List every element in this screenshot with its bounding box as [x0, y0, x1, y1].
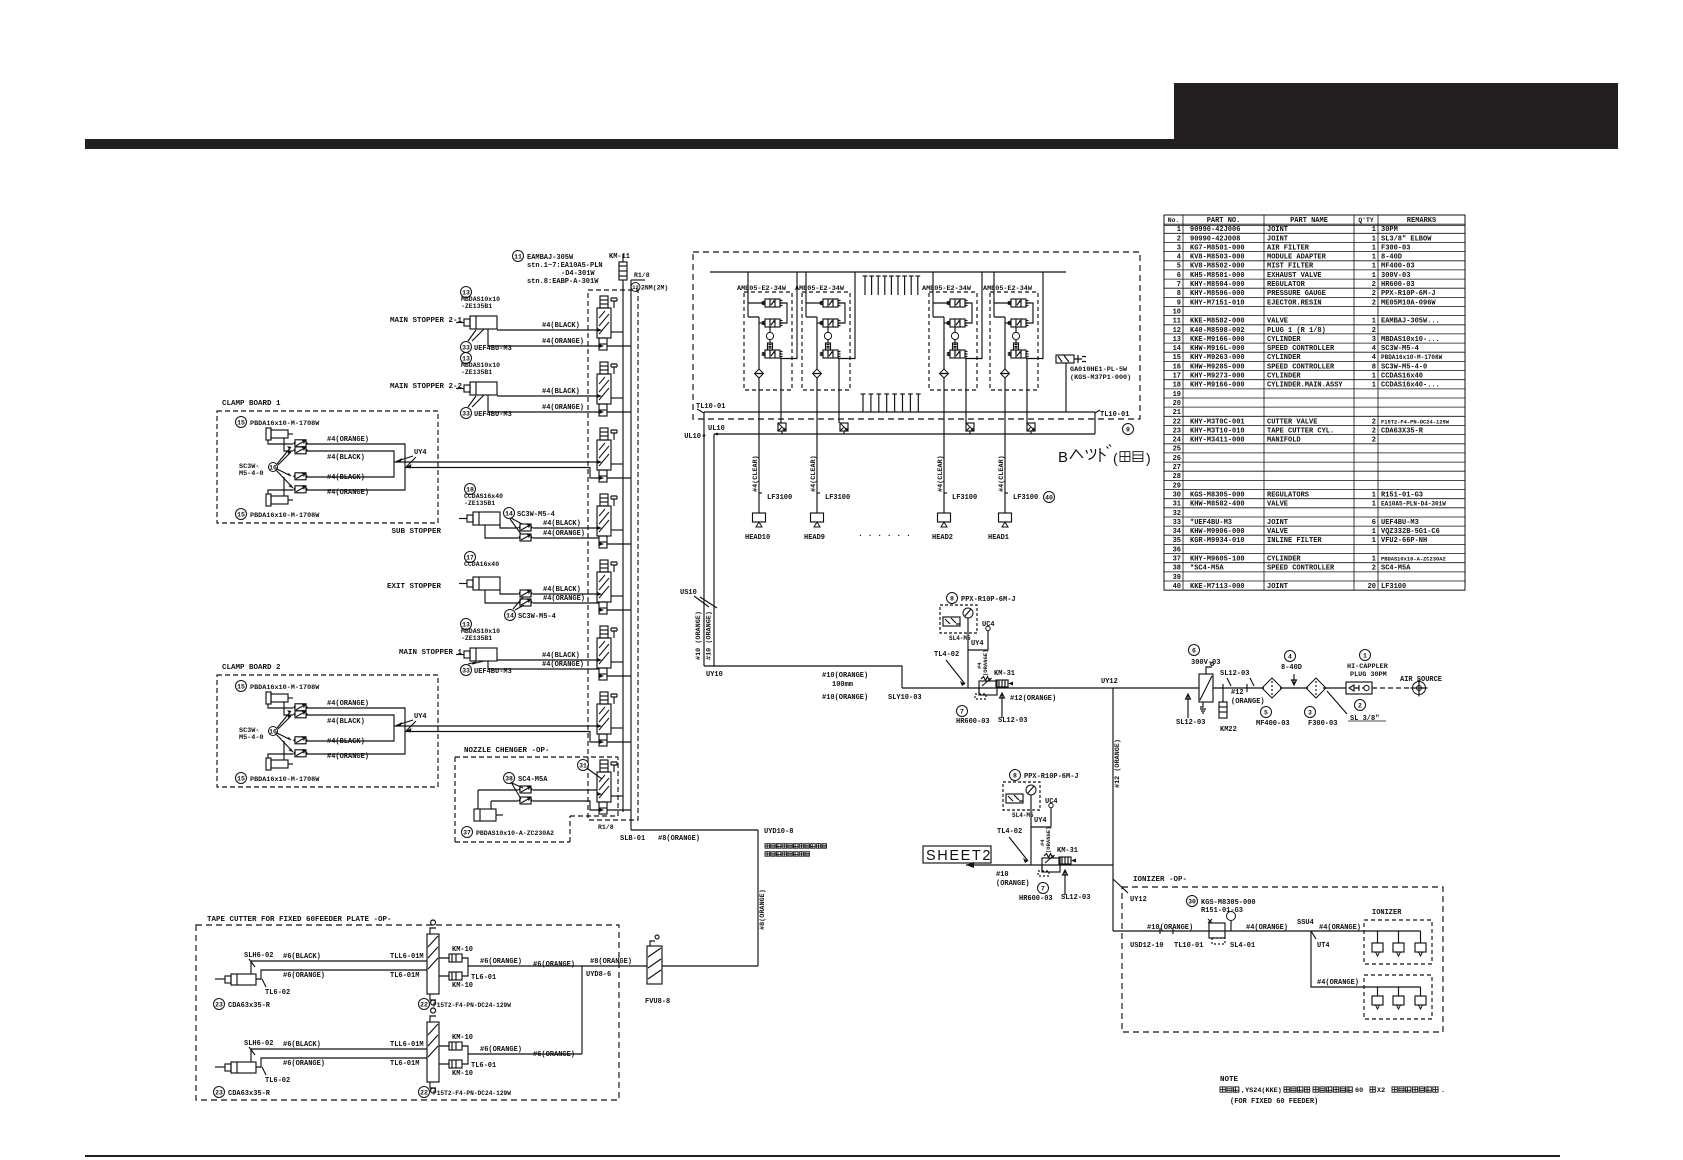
svg-text:32: 32 [1173, 510, 1181, 518]
svg-text:#6(ORANGE): #6(ORANGE) [480, 1046, 522, 1054]
svg-text:KHY-M9273-000: KHY-M9273-000 [1190, 373, 1245, 381]
svg-text:1: 1 [1372, 537, 1376, 545]
svg-text:#4(CLEAR): #4(CLEAR) [937, 455, 945, 492]
svg-text:HR600-03: HR600-03 [956, 718, 990, 726]
head nozzle HEAD10 [753, 513, 766, 527]
svg-text:39: 39 [1173, 574, 1181, 582]
parts table [1164, 215, 1465, 591]
label SHEET2 [923, 846, 991, 863]
svg-text:2: 2 [1372, 437, 1376, 445]
svg-text:KM-10: KM-10 [452, 1070, 473, 1078]
wire #4(BLACK) MAIN STOPPER 2-2 [497, 395, 597, 397]
joint SL 3/8 [1355, 700, 1366, 711]
wire #4(ORANGE) SUB STOPPER [485, 525, 518, 538]
svg-text:TL6-01M: TL6-01M [390, 972, 419, 980]
svg-text:1: 1 [1372, 254, 1376, 262]
svg-text:#4(ORANGE): #4(ORANGE) [327, 489, 369, 497]
svg-text:KHY-M3T10-010: KHY-M3T10-010 [1190, 427, 1245, 435]
svg-text:1: 1 [1372, 556, 1376, 564]
svg-text:#12: #12 [1231, 689, 1244, 697]
valve label block 11 [513, 251, 524, 262]
svg-text:REGULATORS: REGULATORS [1267, 491, 1309, 499]
svg-text:#4(CLEAR): #4(CLEAR) [752, 455, 760, 492]
wire main line right [1213, 687, 1346, 689]
wire tape cutter output [462, 958, 582, 976]
svg-text:PRESSURE GAUGE: PRESSURE GAUGE [1267, 290, 1326, 298]
wire UC4 stub TL4-02 lower [1031, 808, 1051, 827]
wire #4(ORANGE) CLAMP BOARD 2 bottom [268, 754, 293, 758]
svg-text:EXHAUST VALVE: EXHAUST VALVE [1267, 272, 1322, 280]
svg-text:KH5-M8501-000: KH5-M8501-000 [1190, 272, 1245, 280]
svg-text:UC4: UC4 [1045, 798, 1058, 806]
svg-text:33: 33 [462, 344, 470, 351]
svg-text:16: 16 [1173, 363, 1181, 371]
node R1/8 top [631, 279, 645, 281]
svg-text:2: 2 [1177, 235, 1181, 243]
wire #4(BLACK) EXIT STOPPER [500, 590, 518, 594]
svg-text:FVU8-8: FVU8-8 [645, 998, 670, 1006]
svg-text:IONIZER -OP-: IONIZER -OP- [1133, 876, 1187, 884]
svg-text:#12 (ORANGE): #12 (ORANGE) [1114, 739, 1122, 788]
wire #4(ORANGE) MAIN STOPPER 2-1 [488, 329, 599, 346]
svg-text:JOINT: JOINT [1267, 519, 1288, 527]
svg-text:EAMBAJ-305W...: EAMBAJ-305W... [1381, 318, 1440, 326]
svg-text:90990-42J006: 90990-42J006 [1190, 226, 1240, 234]
cylinder MAIN STOPPER 2-1 [461, 287, 472, 298]
module adapter 8-40D [1285, 651, 1296, 662]
svg-text:TL6-01M: TL6-01M [390, 1060, 419, 1068]
svg-text:F300-03: F300-03 [1381, 244, 1410, 252]
wire #4(BLACK) SUB STOPPER [500, 525, 518, 528]
svg-text:stn.8:EABP-A-301W: stn.8:EABP-A-301W [527, 278, 599, 286]
svg-text:TLL6-01M: TLL6-01M [390, 953, 424, 961]
svg-text:USD12-10: USD12-10 [1130, 942, 1164, 950]
wire nozzle changer bottom [491, 801, 599, 810]
svg-text:KHW-M9906-000: KHW-M9906-000 [1190, 528, 1245, 536]
svg-text:1: 1 [1372, 491, 1376, 499]
svg-text:34: 34 [1173, 528, 1181, 536]
svg-text:KHW-M8582-400: KHW-M8582-400 [1190, 501, 1245, 509]
exhaust valve 300V-03 [1189, 645, 1200, 656]
svg-text:UEF4BU-M3: UEF4BU-M3 [474, 668, 512, 676]
wire group 4 feed [993, 272, 995, 295]
valve manifold station 4 [597, 494, 631, 548]
svg-text:30PM: 30PM [1381, 226, 1398, 234]
svg-text:KM-11: KM-11 [609, 253, 630, 261]
svg-text:KGS-M8305-000: KGS-M8305-000 [1190, 491, 1245, 499]
svg-text:TL10-01: TL10-01 [696, 403, 725, 411]
svg-text:38: 38 [505, 775, 513, 782]
svg-text:HEAD10: HEAD10 [745, 534, 770, 542]
svg-text:1: 1 [1372, 235, 1376, 243]
wire #4(BLACK) MAIN STOPPER 2-1 [497, 329, 597, 331]
wire UC4 stub TL4-02 upper [968, 631, 988, 650]
svg-text:PPX-R10P-6M-J: PPX-R10P-6M-J [1024, 773, 1079, 781]
speed controller label SUB STOPPER [504, 508, 515, 519]
wire UT4 branch [1311, 931, 1364, 987]
svg-text:LF3100: LF3100 [767, 494, 792, 502]
svg-text:LF3100: LF3100 [825, 494, 850, 502]
wire tape cutter output [462, 1046, 582, 1064]
svg-text:EA10A5-PLN-D4-301W: EA10A5-PLN-D4-301W [1381, 501, 1446, 508]
svg-text:100mm: 100mm [832, 681, 853, 689]
svg-text:29: 29 [1173, 482, 1181, 490]
wire #12(ORANGE) vertical [1112, 688, 1114, 931]
svg-text:MBDAS10x10: MBDAS10x10 [461, 362, 500, 369]
svg-text:1: 1 [1372, 382, 1376, 390]
svg-text:KKE-M7113-000: KKE-M7113-000 [1190, 583, 1245, 591]
wire #4(BLACK) CLAMP BOARD 1 upper [284, 438, 293, 451]
svg-text:KHY-M8504-000: KHY-M8504-000 [1190, 281, 1245, 289]
svg-text:PLUG 30PM: PLUG 30PM [1350, 671, 1387, 679]
svg-text:NOTE: NOTE [1220, 1076, 1239, 1084]
svg-text:No.: No. [1168, 217, 1180, 224]
wire tape cutter merge [582, 966, 647, 1054]
svg-text:11: 11 [1173, 318, 1181, 326]
svg-text:SLH6-02: SLH6-02 [244, 1040, 273, 1048]
svg-text:CCDAS16x40: CCDAS16x40 [1381, 373, 1423, 381]
svg-text:1: 1 [1372, 244, 1376, 252]
svg-text:MBDAS10x10: MBDAS10x10 [461, 628, 500, 635]
svg-text:EXIT STOPPER: EXIT STOPPER [387, 583, 442, 591]
svg-text:#4(CLEAR): #4(CLEAR) [998, 455, 1006, 492]
feed wire top [710, 271, 1066, 273]
svg-text:KKE-M8582-000: KKE-M8582-000 [1190, 318, 1245, 326]
svg-text:#4(CLEAR): #4(CLEAR) [810, 455, 818, 492]
svg-text:37: 37 [463, 829, 471, 836]
svg-text:SHEET2: SHEET2 [926, 848, 992, 864]
speed controller pair SUB STOPPER [518, 524, 533, 531]
svg-text:UY12: UY12 [1130, 896, 1147, 904]
svg-text:#4(ORANGE): #4(ORANGE) [542, 404, 584, 412]
svg-text:CLAMP BOARD 1: CLAMP BOARD 1 [222, 400, 281, 408]
svg-text:TAPE CUTTER FOR FIXED 60FEEDER: TAPE CUTTER FOR FIXED 60FEEDER PLATE -OP… [207, 916, 392, 924]
svg-text:MF400-03: MF400-03 [1256, 720, 1290, 728]
svg-text:PPX-R10P-6M-J: PPX-R10P-6M-J [1381, 290, 1436, 298]
cylinder PBDAS10x10-A-ZC230A2 [474, 809, 503, 821]
svg-text:MAIN STOPPER 2-2: MAIN STOPPER 2-2 [390, 383, 463, 391]
svg-text:3: 3 [1372, 336, 1376, 344]
svg-text:300V-03: 300V-03 [1191, 659, 1220, 667]
svg-text:1: 1 [1372, 263, 1376, 271]
svg-text:CCDAS16x40-...: CCDAS16x40-... [1381, 382, 1440, 390]
svg-text:JOINT: JOINT [1267, 235, 1288, 243]
svg-text:stn.1~7:EA10A5-PLN: stn.1~7:EA10A5-PLN [527, 262, 603, 270]
svg-text:HR600-03: HR600-03 [1019, 895, 1053, 903]
svg-text:14: 14 [505, 510, 513, 517]
svg-text:HEAD1: HEAD1 [988, 534, 1009, 542]
svg-text:8-40D: 8-40D [1281, 664, 1302, 672]
wire group 1 feed [747, 272, 749, 295]
svg-text:#4(BLACK): #4(BLACK) [542, 652, 580, 660]
svg-text:UEF4BU-M3: UEF4BU-M3 [474, 345, 512, 353]
connector comb lower [861, 394, 921, 412]
head nozzle HEAD9 [811, 513, 824, 527]
cylinder PBDA16x10 top CLAMP BOARD 1 [236, 417, 247, 428]
svg-text:#6(BLACK): #6(BLACK) [283, 953, 321, 961]
tape cutter cylinder CDA63x35-R [215, 1062, 256, 1073]
cylinder SUB STOPPER [465, 484, 476, 495]
svg-text:10: 10 [1173, 308, 1181, 316]
svg-text:4: 4 [1372, 345, 1376, 353]
svg-text:-ZE135B1: -ZE135B1 [461, 635, 492, 642]
svg-text:UY10: UY10 [706, 671, 723, 679]
wire #4(ORANGE) CLAMP BOARD 1 top [268, 440, 293, 444]
svg-text:(FOR FIXED 60 FEEDER): (FOR FIXED 60 FEEDER) [1230, 1098, 1318, 1106]
wire trunk1 CLAMP BOARD 1 [394, 461, 597, 463]
svg-text:(ORANGE): (ORANGE) [982, 650, 989, 676]
svg-text:-ZE135B1: -ZE135B1 [464, 500, 495, 507]
svg-text:KV8-M8503-000: KV8-M8503-000 [1190, 254, 1245, 262]
B-head dashed enclosure [693, 252, 1140, 419]
svg-text:4: 4 [1288, 653, 1292, 660]
wire #10(ORANGE) 100mm [704, 666, 902, 688]
svg-text:#10(ORANGE): #10(ORANGE) [822, 694, 868, 702]
svg-text:LF3100: LF3100 [1381, 583, 1406, 591]
svg-text:#8(ORANGE): #8(ORANGE) [759, 889, 767, 930]
svg-text:#4(BLACK): #4(BLACK) [327, 718, 365, 726]
svg-text:TL6-02: TL6-02 [265, 1077, 290, 1085]
joint KM-10 upper [449, 1042, 462, 1050]
svg-text:VALVE: VALVE [1267, 501, 1288, 509]
svg-text:#12(ORANGE): #12(ORANGE) [1010, 695, 1056, 703]
svg-text:KV8-M8502-000: KV8-M8502-000 [1190, 263, 1245, 271]
cutter valve F15T2 [427, 920, 439, 1005]
joint HI-CAPPLER PLUG 30PM [1360, 650, 1371, 661]
svg-text:-ZE135B1: -ZE135B1 [461, 303, 492, 310]
regulator R151-01-G3 [1187, 896, 1198, 907]
regulator station TL4-02 lower [1030, 795, 1032, 865]
svg-text:(ORANGE): (ORANGE) [1231, 698, 1265, 706]
title block dark [1174, 83, 1618, 149]
svg-text:TL6-01: TL6-01 [471, 974, 496, 982]
wire #4(BLACK) CLAMP BOARD 2 lower [283, 741, 285, 760]
valve manifold station 8 [597, 760, 631, 814]
svg-text:26: 26 [1173, 455, 1181, 463]
svg-text:SL12-03: SL12-03 [1061, 894, 1090, 902]
svg-text:35: 35 [1173, 537, 1181, 545]
svg-text:#4(ORANGE): #4(ORANGE) [543, 530, 585, 538]
svg-text:*UEF4BU-M3: *UEF4BU-M3 [1190, 519, 1232, 527]
svg-text:UY4: UY4 [414, 449, 427, 457]
svg-text:#10 (ORANGE): #10 (ORANGE) [706, 611, 714, 660]
svg-text:CYLINDER.MAIN.ASSY: CYLINDER.MAIN.ASSY [1267, 382, 1343, 390]
bus wire (supply) [622, 285, 624, 812]
svg-text:): ) [1146, 450, 1151, 466]
svg-text:17: 17 [1173, 373, 1181, 381]
gauge label TL4-02 upper [947, 593, 958, 604]
svg-text:5: 5 [1177, 263, 1181, 271]
svg-text:UEF4BU-M3: UEF4BU-M3 [1381, 519, 1419, 527]
svg-text:#6(ORANGE): #6(ORANGE) [283, 972, 325, 980]
svg-text:CLAMP BOARD 2: CLAMP BOARD 2 [222, 664, 281, 672]
svg-text:KHY-M7151-010: KHY-M7151-010 [1190, 299, 1245, 307]
svg-text:UL10: UL10 [684, 433, 701, 441]
svg-text:8: 8 [1013, 772, 1017, 779]
svg-text:1: 1 [1372, 226, 1376, 234]
wire group 2 to manifold [817, 390, 839, 513]
cylinder PBDA16x10 top CLAMP BOARD 2 [236, 681, 247, 692]
svg-text:-D4-301W: -D4-301W [561, 270, 595, 278]
svg-text:1: 1 [1372, 528, 1376, 536]
svg-text:#10 (ORANGE): #10 (ORANGE) [695, 611, 703, 660]
svg-text:15: 15 [237, 775, 245, 782]
svg-text:IONIZER: IONIZER [1372, 909, 1402, 917]
title bar thin [85, 139, 1174, 149]
svg-text:#4(ORANGE): #4(ORANGE) [1246, 924, 1288, 932]
svg-text:2: 2 [1372, 427, 1376, 435]
svg-text:CCDAS16x40: CCDAS16x40 [464, 493, 503, 500]
svg-text:(ORANGE): (ORANGE) [1045, 827, 1052, 853]
svg-text:TL4-02: TL4-02 [934, 651, 959, 659]
svg-text:F15T2-F4-PN-DC24-129W: F15T2-F4-PN-DC24-129W [433, 1002, 511, 1009]
cylinder PBDA16x10 bottom CLAMP BOARD 1 [236, 509, 247, 520]
svg-text:#6(ORANGE): #6(ORANGE) [480, 958, 522, 966]
manifold bar TL10-01 / UL10 [704, 412, 1095, 434]
svg-text:60: 60 [1355, 1087, 1363, 1095]
svg-text:13: 13 [1173, 336, 1181, 344]
svg-text:ME05M10A-096W: ME05M10A-096W [1381, 299, 1436, 307]
speed controller SC4-M5A pair [504, 773, 515, 784]
svg-text:UYD10-8: UYD10-8 [764, 828, 793, 836]
note cutter japanese [765, 844, 770, 849]
svg-text:22: 22 [420, 1089, 428, 1096]
wire FVU8-8 to UYD10-8 [662, 965, 758, 967]
svg-text:KHY-M3411-000: KHY-M3411-000 [1190, 437, 1245, 445]
svg-text:1: 1 [1372, 318, 1376, 326]
svg-text:SSU4: SSU4 [1297, 919, 1314, 927]
svg-text:VALVE: VALVE [1267, 318, 1288, 326]
svg-text:1: 1 [1372, 501, 1376, 509]
svg-text:KM-10: KM-10 [452, 946, 473, 954]
wire trunk2 CLAMP BOARD 2 [405, 732, 599, 743]
svg-text:KG7-M8501-000: KG7-M8501-000 [1190, 244, 1245, 252]
svg-text:TL6-01: TL6-01 [471, 1062, 496, 1070]
svg-text:F15T2-F4-PN-DC24-129W: F15T2-F4-PN-DC24-129W [1381, 419, 1450, 425]
svg-text:6: 6 [1192, 647, 1196, 654]
wire to air source (dashed) [1372, 687, 1410, 689]
svg-text:UEF4BU-M3: UEF4BU-M3 [474, 411, 512, 419]
speed controller label EXIT STOPPER [505, 610, 516, 621]
joint KM-10 lower [449, 972, 462, 980]
cutter valve F15T2 [427, 1008, 439, 1093]
svg-text:12: 12 [632, 284, 639, 291]
gauge label TL4-02 lower [1010, 770, 1021, 781]
svg-text:CDA63x35-R: CDA63x35-R [228, 1090, 271, 1098]
joint KM-31 TL4-02 lower [1059, 857, 1071, 864]
svg-text:#6(ORANGE): #6(ORANGE) [533, 961, 575, 969]
wire #4(ORANGE) MAIN STOPPER 1 [488, 661, 599, 669]
wire SLB-01 [631, 829, 758, 831]
wire group 3 to manifold [944, 390, 966, 513]
svg-text:JOINT: JOINT [1267, 226, 1288, 234]
svg-text:KM-31: KM-31 [1057, 847, 1078, 855]
svg-text:LF3100: LF3100 [1013, 494, 1038, 502]
joint KM-10 lower [449, 1060, 462, 1068]
svg-text:#6(ORANGE): #6(ORANGE) [533, 1051, 575, 1059]
svg-text:UY12: UY12 [1101, 678, 1118, 686]
svg-text:15: 15 [1173, 354, 1181, 362]
svg-text:HEAD9: HEAD9 [804, 534, 825, 542]
svg-text:SC3W-M5-4: SC3W-M5-4 [518, 613, 556, 621]
svg-text:MAIN STOPPER 2-1: MAIN STOPPER 2-1 [390, 317, 463, 325]
svg-text:EAMBAJ-305W: EAMBAJ-305W [527, 254, 574, 262]
svg-text:TL4-02: TL4-02 [997, 828, 1022, 836]
svg-text:UYD8-6: UYD8-6 [586, 971, 611, 979]
svg-text:PBDA16x10-M-1708W: PBDA16x10-M-1708W [250, 512, 320, 520]
svg-text:KHY-M9605-100: KHY-M9605-100 [1190, 556, 1245, 564]
wire #4(ORANGE) MAIN STOPPER 2-2 [488, 395, 599, 412]
cylinder MAIN STOPPER 1 [461, 619, 472, 630]
svg-text:R151-01-G3: R151-01-G3 [1201, 907, 1243, 915]
wire SHEET2 line [966, 864, 1113, 866]
wire trunk2 CLAMP BOARD 1 [405, 468, 599, 479]
svg-text:#10(ORANGE): #10(ORANGE) [1147, 924, 1193, 932]
svg-text:#4(ORANGE): #4(ORANGE) [542, 661, 584, 669]
wire #6(BLACK) tape cutter [251, 1049, 427, 1062]
svg-text:F15T2-F4-PN-DC24-129W: F15T2-F4-PN-DC24-129W [433, 1090, 511, 1097]
svg-text:TAPE CUTTER CYL.: TAPE CUTTER CYL. [1267, 427, 1334, 435]
svg-text:AIR SOURCE: AIR SOURCE [1400, 676, 1442, 684]
svg-text:B: B [1058, 449, 1068, 466]
svg-text:UY4: UY4 [1034, 817, 1047, 825]
svg-text:#4(ORANGE): #4(ORANGE) [327, 436, 369, 444]
svg-text:PPX-R10P-6M-J: PPX-R10P-6M-J [961, 596, 1016, 604]
wire #4(BLACK) CLAMP BOARD 2 upper [284, 702, 293, 715]
svg-text:SL4-01: SL4-01 [1230, 942, 1255, 950]
svg-text:2: 2 [1372, 290, 1376, 298]
valve manifold station 6 [597, 626, 631, 680]
svg-text:7: 7 [960, 708, 964, 715]
svg-text:2NM(2M): 2NM(2M) [641, 285, 668, 292]
svg-text:HI-CAPPLER: HI-CAPPLER [1347, 663, 1389, 671]
svg-text:. . . . . .: . . . . . . [858, 530, 911, 539]
svg-text:SL12-03: SL12-03 [1220, 670, 1249, 678]
joint UEF4BU-M3 MAIN STOPPER 2-1 [461, 342, 472, 353]
svg-text:MF400-03: MF400-03 [1381, 263, 1415, 271]
wire #4(BLACK) CLAMP BOARD 1 lower [283, 477, 285, 496]
svg-text:SL3/8" ELBOW: SL3/8" ELBOW [1381, 235, 1432, 243]
svg-text:20: 20 [1173, 400, 1181, 408]
regulator labels TL4-02 lower [1038, 883, 1049, 894]
joint KM-10 upper [449, 954, 462, 962]
svg-text:KM22: KM22 [1220, 726, 1237, 734]
svg-text:2: 2 [1358, 702, 1362, 709]
speed controllers CLAMP BOARD 2 [293, 704, 308, 711]
svg-text:2: 2 [1372, 281, 1376, 289]
svg-text:SL4-M5: SL4-M5 [949, 635, 971, 642]
valve manifold station 3 [597, 428, 631, 482]
svg-text:-ZE135B1: -ZE135B1 [461, 369, 492, 376]
svg-text:24: 24 [1173, 437, 1181, 445]
svg-text:PART NAME: PART NAME [1290, 217, 1328, 225]
svg-text:27: 27 [1173, 464, 1181, 472]
svg-text:MAIN STOPPER 1: MAIN STOPPER 1 [399, 649, 463, 657]
pressure gauge dashed box TL4-02 lower [1003, 782, 1040, 810]
air filter F300-03 [1306, 678, 1326, 698]
wire #4(ORANGE) CLAMP BOARD 1 bottom [268, 490, 293, 494]
svg-text:SPEED CONTROLLER: SPEED CONTROLLER [1267, 363, 1335, 371]
valve manifold station 2 [597, 362, 631, 416]
bus wire (return) [630, 280, 632, 830]
svg-text:33: 33 [1173, 519, 1181, 527]
wire main line SLY10-03 [902, 687, 1199, 689]
svg-text:TL10-01: TL10-01 [1100, 411, 1129, 419]
wire #6(ORANGE) tape cutter [256, 970, 427, 979]
svg-text:KGS-M8305-000: KGS-M8305-000 [1201, 899, 1256, 907]
svg-text:PBDA16x10-M-1708W: PBDA16x10-M-1708W [250, 776, 320, 784]
wire UYD10-8 vertical [757, 830, 759, 966]
